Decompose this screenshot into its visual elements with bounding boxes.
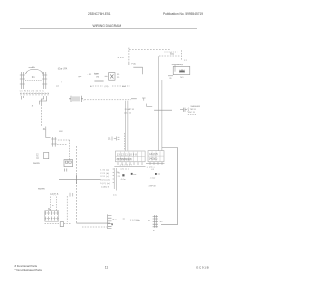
wire riser to J3 pin b — [56, 197, 58, 211]
wire vertical pair to J1 — [126, 101, 128, 151]
svg-text:PUMP 31: PUMP 31 — [125, 109, 135, 111]
svg-text:(2) | | |: (2) | | | — [121, 169, 130, 171]
connector strip J5 — [69, 96, 83, 102]
connector J1 bottom ticks — [118, 162, 142, 165]
svg-text:WIRING DIAGRAM: WIRING DIAGRAM — [93, 24, 122, 28]
wire riser x67 — [66, 196, 68, 222]
svg-text:gw: gw — [78, 76, 81, 78]
svg-text:5 (C) (e): 5 (C) (e) — [100, 183, 110, 185]
console bottom dashed row — [90, 85, 130, 87]
elbow near compressor — [172, 65, 179, 72]
svg-text:14(3)(1): 14(3)(1) — [149, 158, 158, 161]
svg-text:(31): (31) — [105, 86, 109, 88]
tick mark T — [142, 98, 146, 101]
node dark dot 2 — [131, 173, 133, 175]
svg-text:GC 11: GC 11 — [189, 112, 196, 114]
compressor left lead — [168, 75, 173, 77]
terminal row dashes — [20, 93, 49, 95]
wire dashed to fuse — [45, 223, 71, 225]
under J1 rule — [114, 166, 145, 168]
svg-text:wwAA.: wwAA. — [29, 66, 36, 69]
svg-text:2 21 (b): 2 21 (b) — [100, 173, 109, 175]
wire bottom bus — [76, 222, 110, 224]
svg-text:z: z — [84, 100, 85, 102]
svg-text:GC91B: GC91B — [196, 266, 209, 270]
wire dashed pair row y100 — [85, 99, 132, 101]
timer T1 left terminals — [20, 72, 25, 89]
wire solid end y100 — [131, 98, 137, 100]
wire dashed drop to compressor — [180, 50, 182, 60]
svg-text:4 EF-W: 4 EF-W — [149, 186, 156, 188]
compressor box M1 — [173, 66, 190, 74]
wire elbow right of overload — [133, 67, 142, 74]
wire small dashes — [118, 56, 124, 58]
wire main horizontal bus — [59, 179, 101, 181]
svg-text:L1 N 31 21 11 5 C: L1 N 31 21 11 5 C — [20, 91, 44, 93]
svg-text:PLA: PLA — [131, 62, 136, 65]
timer T1 inner dashed — [25, 80, 42, 82]
svg-text:Erg: Erg — [170, 53, 174, 56]
svg-text:1 31 (a): 1 31 (a) — [100, 170, 109, 172]
connector J1 block — [116, 151, 146, 162]
heater element R1 — [153, 215, 158, 228]
svg-text:.1 ww: .1 ww — [150, 178, 156, 180]
connector J4 dark dot — [111, 223, 112, 225]
connector J4 pins — [108, 214, 112, 229]
capacitor C1 symbol — [180, 108, 187, 112]
timer T1 dome — [26, 69, 44, 74]
wire bottom dashed — [82, 226, 107, 228]
junction tick on bus — [75, 175, 77, 184]
connector J2 dividers — [148, 151, 164, 161]
wire top dashed run to compressor — [129, 49, 170, 51]
svg-text:a b c d e f: a b c d e f — [120, 165, 133, 167]
svg-text:4 (5) (d): 4 (5) (d) — [100, 180, 110, 182]
wire short dash — [123, 218, 125, 220]
overload inner mark — [110, 74, 113, 78]
wire top dashes label — [164, 51, 177, 53]
svg-text:11: 11 — [105, 265, 109, 269]
wire tick at node 31 — [46, 127, 51, 138]
wire elbow from timer right pins — [40, 96, 47, 105]
wire vertical dashed left riser — [40, 105, 42, 127]
wire vertical dashed to PLA — [128, 48, 130, 62]
svg-text:NO: NO — [180, 77, 184, 79]
wire tick to PLA — [128, 62, 130, 65]
svg-text:(8)(7)(6)(5)(4)(3): (8)(7)(6)(5)(4)(3) — [117, 158, 132, 161]
wire elbow second — [41, 96, 43, 105]
wire riser crossing bus — [75, 146, 77, 223]
timer T1 right terminals — [42, 72, 47, 89]
svg-text:13 (2) 5: 13 (2) 5 — [149, 153, 158, 156]
wire dashed feed y56 — [159, 55, 180, 57]
notes brace — [187, 108, 190, 113]
ticks cluster — [112, 137, 119, 141]
svg-text:ww: ww — [133, 174, 137, 176]
wire label column ticks — [113, 169, 115, 182]
svg-text:1M: 1M — [96, 77, 99, 79]
svg-text:wwww: wwww — [33, 163, 40, 165]
svg-text:w--: w-- — [160, 221, 163, 223]
svg-text:3 11 (c): 3 11 (c) — [100, 176, 109, 178]
latch ticks — [70, 193, 73, 197]
wire long right vertical — [161, 148, 178, 225]
overload box U3 — [109, 73, 115, 81]
door switch S1 — [51, 137, 56, 147]
elbow L — [147, 104, 153, 107]
connector J2 bottom ticks — [150, 162, 162, 165]
svg-text:twwr: twwr — [94, 73, 99, 76]
svg-text:4 4 w: 4 4 w — [121, 179, 126, 181]
node dark dot — [122, 174, 124, 176]
svg-text:Publication No. 5995545719: Publication No. 5995545719 — [163, 12, 203, 16]
svg-text:ad.: ad. — [56, 85, 59, 87]
svg-text:253NC76H-E51: 253NC76H-E51 — [88, 12, 111, 16]
wire riser to J3 pin a — [50, 197, 52, 211]
connector J3 pin grid — [45, 211, 59, 221]
header rule — [20, 28, 197, 30]
interlock box U2 — [64, 160, 73, 172]
svg-text:w (31) S: w (31) S — [101, 186, 110, 188]
svg-text:13 (T) 5: 13 (T) 5 — [50, 194, 59, 196]
relay block K1 label box — [44, 152, 49, 158]
svg-text:(Gar | PA: (Gar | PA — [58, 68, 68, 71]
node dark dot 3 — [155, 173, 157, 175]
wire short riser — [123, 133, 125, 151]
overload left lead — [105, 75, 108, 77]
terminal row ticks — [21, 93, 48, 96]
wire long vertical pair to J2 — [158, 56, 162, 150]
notes dashes — [188, 114, 197, 116]
svg-text:13 12 11 10 9 8: 13 12 11 10 9 8 — [117, 153, 138, 156]
thermostat underline — [94, 80, 103, 82]
wire double drop to J4 — [114, 168, 116, 191]
svg-text:TM 31: TM 31 — [190, 109, 197, 111]
under J2 rule — [146, 163, 165, 165]
connector J2 block — [148, 151, 164, 162]
dash right of dot3 — [158, 173, 160, 175]
thermal fuse F1 box — [60, 222, 63, 227]
svg-text:w ---: w --- — [113, 219, 117, 221]
svg-text:WASHER: WASHER — [191, 105, 201, 108]
wire left terminal drops — [21, 96, 23, 100]
svg-text:wwww: wwww — [38, 189, 45, 191]
compressor glyph — [179, 69, 185, 73]
svg-text:* Non-Illustrated Parts: * Non-Illustrated Parts — [15, 268, 43, 272]
wire branch y110 — [154, 109, 172, 111]
svg-text:1 1 C Mde: 1 1 C Mde — [130, 220, 141, 222]
connector J3 outline — [45, 211, 59, 222]
wire dashed pair from switch — [57, 140, 70, 160]
wire branch y147.5 — [162, 147, 178, 149]
svg-text:(1): (1) — [36, 158, 39, 160]
connector J1 dividers — [116, 152, 146, 162]
svg-text:w w: w w — [113, 194, 117, 196]
